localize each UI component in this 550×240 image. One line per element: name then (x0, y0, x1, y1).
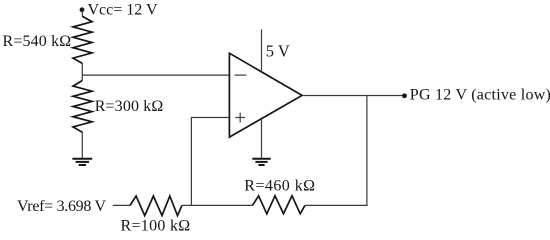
svg-text:PG 12 V (active low): PG 12 V (active low) (410, 86, 550, 103)
op-amp U1 triangle (229, 53, 302, 137)
wire op-amp negative supply to ground (261, 119, 263, 159)
ground G2 (op-amp ground) (252, 159, 270, 165)
op-amp non-inverting input plus sign (235, 113, 245, 123)
wire R4 to feedback corner (305, 204, 368, 206)
wire node A to op-amp inverting input (82, 74, 229, 76)
svg-text:R=300 kΩ: R=300 kΩ (95, 98, 164, 115)
svg-text:R=540 kΩ: R=540 kΩ (3, 33, 72, 50)
resistor R1 (R=540 k) zigzag (73, 16, 92, 63)
wire node B up to op-amp non-inverting input (191, 118, 229, 206)
resistor R4 (R=460 k) zigzag (253, 196, 305, 214)
svg-text:5 V: 5 V (266, 42, 290, 61)
resistor R3 (R=100 k) zigzag (130, 196, 182, 216)
resistor R2 (R=300 k) zigzag (73, 81, 92, 133)
svg-text:Vcc= 12 V: Vcc= 12 V (88, 2, 158, 19)
wire R2 bottom to ground (81, 132, 83, 158)
wire feedback vertical from output node (366, 96, 368, 206)
op-amp inverting input minus sign (235, 74, 247, 76)
wire R1 bottom to node A (81, 63, 83, 81)
wire Vcc dot to R1 top (81, 10, 83, 17)
svg-text:Vref= 3.698 V: Vref= 3.698 V (17, 198, 106, 215)
node Vcc (junction dot) (80, 7, 85, 12)
wire R3 to R4 through node B (182, 204, 253, 206)
svg-text:R=460 kΩ: R=460 kΩ (244, 177, 315, 194)
node PG (output dot) (402, 93, 407, 98)
wire Vref to R3 (113, 204, 130, 206)
svg-text:R=100 kΩ: R=100 kΩ (121, 217, 191, 234)
wire op-amp output to PG node (302, 95, 404, 97)
wire 5V supply to op-amp top edge (261, 29, 263, 72)
ground G1 (left divider ground) (72, 159, 92, 165)
